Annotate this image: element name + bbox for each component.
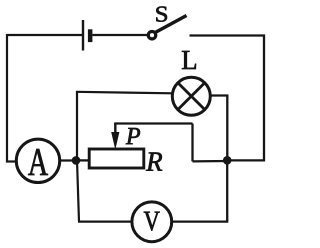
label P — [126, 128, 140, 144]
wire slider right vertical — [191, 124, 193, 162]
node left junction dot — [72, 156, 81, 165]
wire voltmeter left — [78, 220, 132, 222]
label R — [146, 153, 162, 171]
wire left vertical — [6, 34, 8, 163]
slider P wire vertical — [114, 123, 116, 134]
wire right-junction to right edge — [227, 159, 265, 161]
battery B1 long plate (+) — [82, 20, 84, 51]
voltmeter label V — [144, 212, 160, 231]
wire top-left horizontal — [7, 34, 82, 36]
wire slider horizontal — [114, 122, 192, 124]
wire junction to rheostat — [76, 159, 90, 161]
lamp L cross stroke 1 — [178, 83, 204, 109]
lamp L circle — [172, 77, 210, 115]
wire inner-left vertical up — [76, 91, 78, 160]
wire left vertical to ammeter — [6, 160, 17, 162]
label L — [182, 51, 196, 69]
wire lamp to inner-right vertical — [210, 94, 228, 96]
node right junction dot — [223, 156, 232, 165]
wire voltmeter right — [172, 220, 228, 222]
wire switch to top-right corner — [190, 34, 266, 36]
wire battery to switch — [92, 34, 147, 36]
wire ammeter to left junction — [60, 159, 78, 161]
lamp L cross stroke 2 — [178, 83, 204, 109]
wire right vertical — [263, 35, 265, 162]
wire inner-right vertical down to junction — [226, 96, 228, 161]
switch S lever (open) — [155, 16, 186, 33]
wire slider bottom to junction — [193, 160, 228, 163]
rheostat R box — [89, 149, 144, 168]
wire below right junction — [226, 160, 228, 221]
wire inner-left vertical down — [77, 160, 79, 221]
voltmeter U2 circle — [132, 202, 172, 242]
battery B1 short thick plate (-) — [88, 29, 93, 42]
switch S pivot circle — [148, 32, 155, 39]
slider P arrowhead — [111, 132, 119, 150]
ammeter U1 circle — [16, 139, 59, 182]
wire inner-top horizontal to lamp — [76, 92, 173, 94]
ammeter label A — [28, 149, 48, 175]
label S — [156, 7, 167, 22]
